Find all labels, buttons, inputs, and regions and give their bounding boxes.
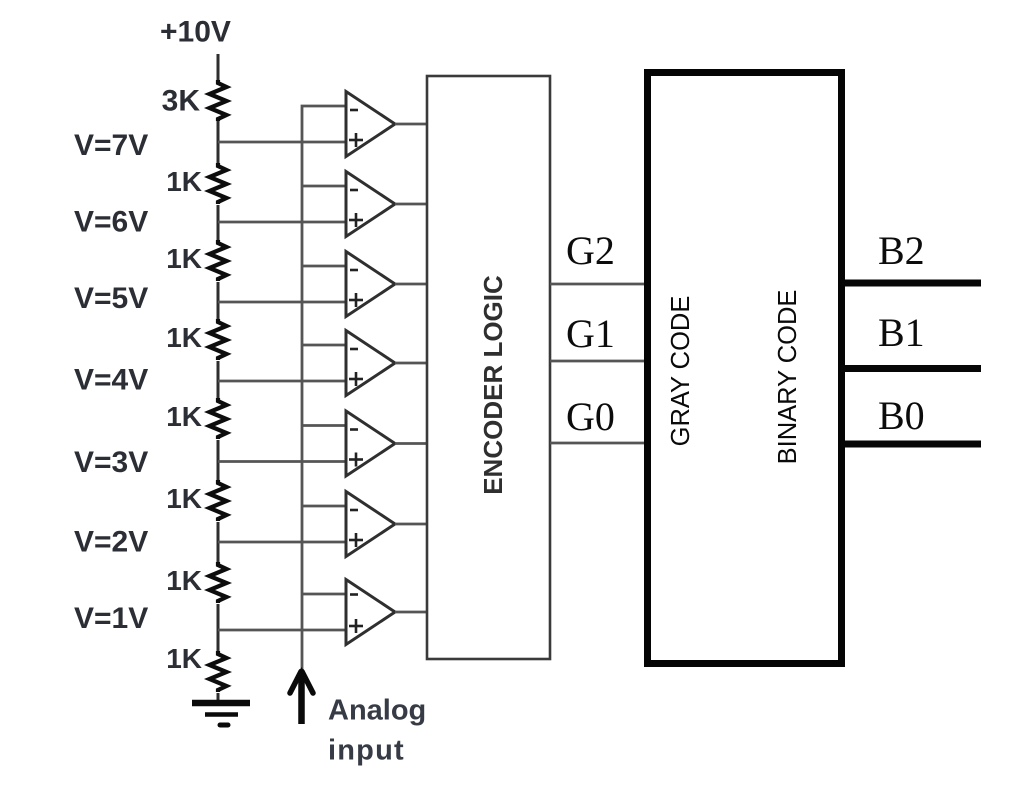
resistor R2 1K — [210, 163, 227, 204]
wire bus branch to U7 - input — [302, 593, 346, 596]
svg-text:V=1V: V=1V — [74, 602, 148, 635]
svg-text:1K: 1K — [166, 243, 202, 274]
resistor R6 1K — [210, 480, 227, 521]
wire analog input bus — [302, 106, 346, 700]
svg-text:3K: 3K — [162, 85, 201, 118]
wire G1 — [550, 360, 645, 363]
wire ladder segment R2 to tap V=6V — [217, 205, 220, 241]
wire ladder segment R4 to tap V=4V — [217, 361, 220, 400]
op-amp U4 (comparator, V=4V) — [346, 331, 395, 396]
wire tap V=7V to comparator U1 + input — [218, 141, 346, 144]
wire U5 output to encoder — [395, 442, 428, 445]
svg-text:V=2V: V=2V — [74, 526, 148, 559]
op-amp U7 (comparator, V=1V) — [346, 580, 395, 645]
wire U7 output to encoder — [395, 611, 428, 614]
svg-text:GRAY CODE: GRAY CODE — [667, 296, 695, 447]
svg-text:Analog: Analog — [328, 695, 426, 727]
wire G0 — [550, 442, 645, 445]
wire U4 output to encoder — [395, 362, 428, 365]
wire bus branch to U2 - input — [302, 185, 346, 188]
svg-text:+10V: +10V — [160, 16, 231, 49]
svg-text:B2: B2 — [878, 228, 925, 273]
wire tap V=6V to comparator U2 + input — [218, 221, 346, 224]
wire ladder segment R8 to ground — [217, 693, 220, 700]
resistor R1 3K — [210, 80, 227, 121]
wire ladder segment R3 to tap V=5V — [217, 282, 220, 320]
svg-text:V=3V: V=3V — [74, 446, 148, 479]
op-amp U5 (comparator, V=3V) — [346, 411, 395, 476]
wire ladder segment R1 to tap V=7V — [217, 121, 220, 164]
svg-text:V=5V: V=5V — [74, 282, 148, 315]
wire bus branch to U6 - input — [302, 505, 346, 508]
svg-text:1K: 1K — [166, 483, 202, 514]
svg-text:G0: G0 — [566, 394, 615, 439]
wire B1 (bold output) — [841, 365, 981, 372]
wire tap V=4V to comparator U4 + input — [218, 380, 346, 383]
wire G2 — [550, 283, 645, 286]
wire ladder segment R5 to tap V=3V — [217, 440, 220, 481]
wire U2 output to encoder — [395, 203, 428, 206]
wire B2 (bold output) — [841, 280, 981, 287]
wire ladder segment R7 to tap V=1V — [217, 604, 220, 652]
gray-to-binary converter box — [648, 73, 842, 664]
wire bus branch to U4 - input — [302, 344, 346, 347]
wire bus branch to U5 - input — [302, 424, 346, 427]
wire U6 output to encoder — [395, 523, 428, 526]
svg-text:V=6V: V=6V — [74, 206, 148, 239]
wire tap V=3V to comparator U5 + input — [218, 460, 346, 463]
resistor R3 1K — [210, 240, 227, 281]
svg-text:1K: 1K — [166, 401, 202, 432]
wire tap V=5V to comparator U3 + input — [218, 301, 346, 304]
resistor R5 1K — [210, 398, 227, 439]
wire tap V=1V to comparator U7 + input — [218, 629, 346, 632]
svg-text:1K: 1K — [166, 565, 202, 596]
svg-text:1K: 1K — [166, 643, 202, 674]
svg-text:input: input — [328, 735, 405, 767]
svg-text:G2: G2 — [566, 228, 615, 273]
svg-text:V=7V: V=7V — [74, 129, 148, 162]
op-amp U2 (comparator, V=6V) — [346, 172, 395, 237]
svg-text:B1: B1 — [878, 310, 925, 355]
op-amp U6 (comparator, V=2V) — [346, 492, 395, 557]
wire bus branch to U3 - input — [302, 265, 346, 268]
ground symbol — [192, 703, 250, 725]
wire +10V supply lead — [217, 54, 220, 81]
wire U3 output to encoder — [395, 283, 428, 286]
resistor R7 1K — [210, 562, 227, 603]
analog input arrow — [290, 667, 313, 724]
svg-text:G1: G1 — [566, 311, 615, 356]
wire U1 output to encoder — [395, 123, 428, 126]
svg-text:1K: 1K — [166, 322, 202, 353]
wire ladder segment R6 to tap V=2V — [217, 522, 220, 563]
resistor R4 1K — [210, 319, 227, 360]
svg-text:BINARY CODE: BINARY CODE — [774, 290, 802, 465]
op-amp U1 (comparator, V=7V) — [346, 92, 395, 157]
op-amp U3 (comparator, V=5V) — [346, 252, 395, 317]
wire B0 (bold output) — [841, 441, 981, 448]
svg-text:1K: 1K — [166, 166, 202, 197]
svg-text:ENCODER LOGIC: ENCODER LOGIC — [478, 275, 508, 495]
svg-text:V=4V: V=4V — [74, 364, 148, 397]
resistor R8 1K — [210, 651, 227, 692]
encoder logic box — [427, 76, 550, 659]
wire tap V=2V to comparator U6 + input — [218, 541, 346, 544]
svg-text:B0: B0 — [878, 393, 925, 438]
